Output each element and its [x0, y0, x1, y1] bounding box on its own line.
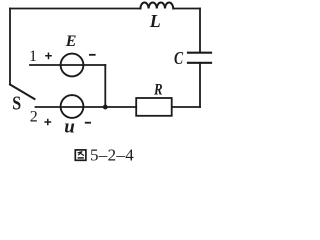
wire bottom-right (resistor to right corner) [172, 106, 200, 108]
wire vertical E-branch down to junction [104, 65, 106, 107]
wire right upper (to capacitor) [199, 9, 201, 52]
resistor R (box) [136, 98, 172, 116]
svg-text:S: S [12, 91, 21, 113]
switch S blade [10, 85, 35, 100]
svg-text:R: R [153, 81, 163, 98]
wire top-left segment [10, 8, 140, 10]
caption character 图 (drawn) [75, 150, 86, 160]
inductor L (coil) [140, 3, 173, 9]
minus sign of u [85, 122, 91, 124]
minus sign of E [89, 54, 96, 56]
wire junction to resistor [105, 106, 136, 108]
wire top-right segment [173, 8, 200, 10]
plus sign of E [45, 53, 52, 60]
wire left border [9, 9, 11, 85]
svg-text:E: E [65, 33, 77, 50]
svg-text:u: u [64, 117, 75, 138]
capacitor C bottom plate [188, 62, 211, 64]
capacitor C top plate [188, 52, 211, 54]
plus sign of u [44, 119, 51, 126]
svg-text:2: 2 [30, 109, 38, 126]
svg-text:1: 1 [29, 48, 37, 65]
svg-text:C: C [174, 50, 184, 69]
svg-text:5–2–4: 5–2–4 [90, 145, 134, 164]
source u (circle) [61, 95, 84, 118]
wire source E branch (contact 1, through source) [30, 64, 105, 66]
wire right lower (capacitor to bottom corner) [199, 64, 201, 107]
junction node dot [103, 105, 108, 110]
svg-text:L: L [149, 11, 161, 31]
wire source u branch (contact 2, through source) [36, 106, 106, 108]
source E (circle) [61, 54, 84, 77]
